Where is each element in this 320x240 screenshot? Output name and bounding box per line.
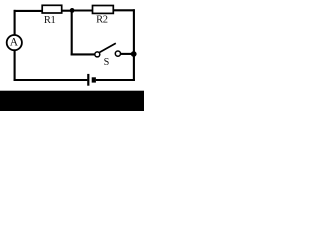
switch S — [95, 43, 121, 68]
wire bottom-left segment — [14, 79, 88, 81]
wire R1 to node — [62, 10, 72, 12]
bottom black strip — [0, 91, 144, 111]
node B (junction dot right) — [131, 51, 137, 57]
resistor R2 — [93, 6, 114, 26]
battery cell — [88, 74, 96, 86]
wire top-left segment — [14, 10, 42, 12]
wire switch branch horizontal — [71, 53, 95, 55]
node A (junction dot top) — [70, 8, 75, 13]
wire switch branch vertical — [71, 10, 73, 55]
svg-text:S: S — [104, 57, 110, 68]
wire left vertical — [14, 10, 16, 81]
resistor R1 — [42, 5, 62, 26]
wire R2 to top-right corner — [114, 9, 135, 11]
wire node to R2 — [72, 9, 92, 11]
svg-text:R2: R2 — [96, 15, 108, 26]
ammeter A1 — [7, 35, 22, 50]
svg-text:A: A — [10, 37, 19, 49]
wire right vertical — [133, 9, 135, 81]
svg-text:R1: R1 — [44, 15, 56, 26]
wire switch to right junction — [120, 53, 133, 55]
wire bottom-right segment — [96, 79, 135, 81]
